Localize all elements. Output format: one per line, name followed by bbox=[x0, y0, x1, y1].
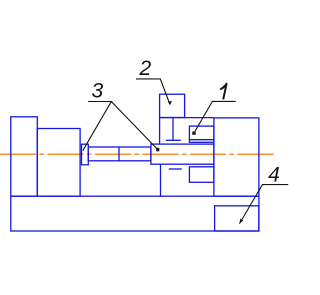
box 2 (clamp handle block) bbox=[160, 94, 185, 117]
centerline (spindle axis, orange dash-dot) bbox=[0, 153, 274, 155]
bed bbox=[11, 196, 259, 231]
headstock main box bbox=[37, 129, 80, 197]
tailstock body bbox=[214, 118, 259, 196]
clamp screw foot bbox=[166, 139, 181, 141]
label 3 leader right leg bbox=[111, 102, 157, 150]
label 3 leader left leg bbox=[83, 102, 112, 151]
chuck face plate bbox=[82, 144, 89, 165]
lower foot bbox=[169, 168, 182, 170]
lower wall bbox=[160, 164, 162, 196]
label 4 arrowhead bbox=[239, 219, 243, 224]
headstock left block bbox=[11, 117, 38, 196]
workpiece shaft bbox=[88, 147, 151, 161]
cabinet 4 bbox=[215, 206, 259, 231]
svg-text:2: 2 bbox=[139, 57, 152, 80]
lower clamp box bbox=[189, 167, 214, 183]
label 3 end dot bbox=[156, 148, 159, 152]
shaft divider bbox=[118, 147, 120, 161]
label 4 leader bbox=[240, 185, 289, 224]
upper clamp box 1 bbox=[189, 126, 214, 142]
upper clamp inner line bbox=[189, 139, 214, 141]
label digit 1 bbox=[220, 84, 226, 100]
svg-text:3: 3 bbox=[92, 80, 104, 103]
upper wall bbox=[159, 118, 161, 145]
label 2 leader bbox=[136, 79, 170, 104]
tailstock quill bbox=[151, 144, 214, 164]
label 1 leader bbox=[194, 101, 236, 133]
label 1 end dot bbox=[192, 132, 195, 135]
svg-text:4: 4 bbox=[268, 164, 280, 187]
label 2 arrowhead bbox=[168, 101, 172, 105]
clamp screw stem bbox=[172, 118, 174, 141]
top surface line bbox=[160, 117, 214, 119]
